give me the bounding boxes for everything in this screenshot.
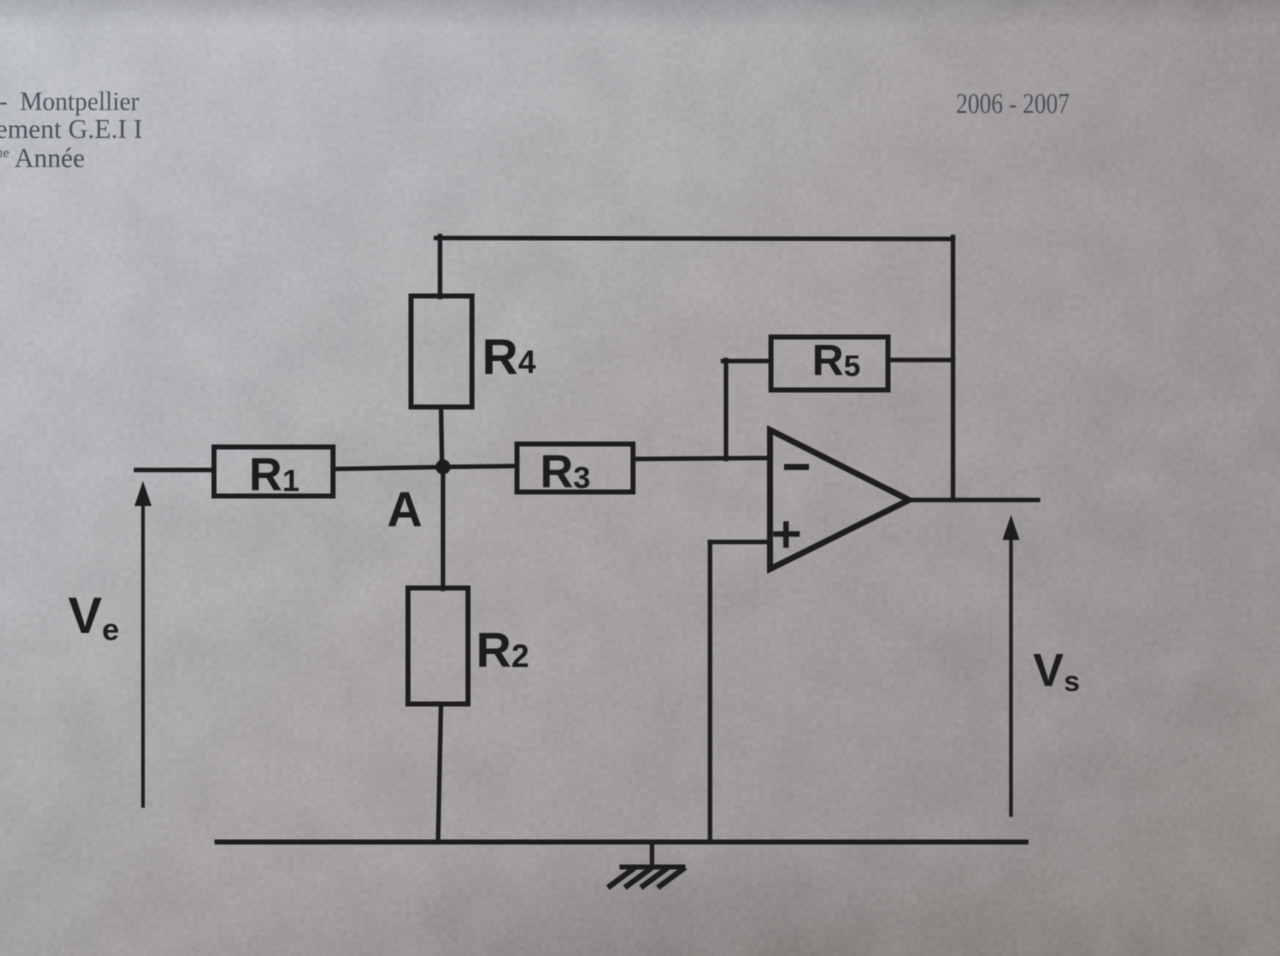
ground hatch lines <box>610 869 683 886</box>
op-amp minus sign <box>787 464 806 470</box>
ground bar <box>622 865 683 870</box>
arrow Ve head <box>135 481 152 506</box>
wire node A to R3 <box>443 466 517 467</box>
ground stub <box>650 842 655 867</box>
resistor R1 <box>214 447 333 496</box>
wire R4 top stub <box>438 236 443 297</box>
node A junction dot <box>436 460 451 475</box>
wire plus input horizontal <box>710 540 770 545</box>
header text year 2006-2007 <box>956 89 1070 121</box>
wire plus input vertical <box>708 542 713 842</box>
svg-text:R3: R3 <box>540 445 590 497</box>
wire R5 left <box>723 359 771 364</box>
header text departement GEII <box>0 114 142 145</box>
svg-text:R4: R4 <box>482 329 536 385</box>
header text Montpellier <box>0 87 139 117</box>
svg-text:Vs: Vs <box>1033 644 1080 698</box>
wire op-amp output <box>909 498 1038 503</box>
wire input left segment <box>136 468 214 473</box>
wire feedback junction vertical <box>724 360 729 459</box>
svg-text:Ve: Ve <box>68 587 119 647</box>
wire bottom ground rail <box>217 840 1026 845</box>
resistor R4 <box>411 296 472 407</box>
wire node A to R2 <box>441 465 446 589</box>
resistor R5 <box>771 337 888 390</box>
wire R4 bottom to node <box>441 407 442 464</box>
wire R3 to op-amp minus input <box>633 458 770 459</box>
arrow Ve shaft <box>141 503 145 806</box>
wire top horizontal <box>436 238 953 239</box>
op-amp plus sign <box>776 524 797 545</box>
wire R1 to node A <box>333 467 443 469</box>
header text annee <box>0 143 85 174</box>
arrow Vs shaft <box>1009 537 1013 815</box>
wire R2 bottom to ground rail <box>438 704 441 842</box>
op-amp U1 <box>770 430 909 569</box>
wire right vertical feedback <box>951 237 956 499</box>
svg-text:R1: R1 <box>249 448 299 500</box>
arrow Vs head <box>1003 515 1020 540</box>
svg-text:R2: R2 <box>476 624 529 678</box>
svg-text:R5: R5 <box>812 336 860 385</box>
resistor R3 <box>517 444 633 492</box>
wire R5 right <box>888 358 953 363</box>
resistor R2 <box>408 588 468 704</box>
svg-text:A: A <box>387 483 422 537</box>
